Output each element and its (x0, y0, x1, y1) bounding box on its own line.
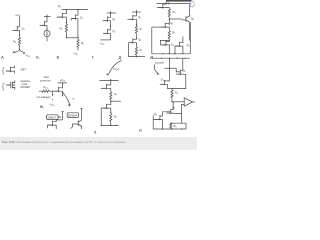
wire (127, 18, 132, 20)
transistor Q4 with gate loop (162, 41, 169, 46)
svg-text:RS: RS (13, 40, 17, 45)
wire (162, 112, 166, 129)
wire (135, 10, 137, 12)
arrowhead (46, 34, 48, 36)
wire (109, 81, 111, 92)
wire (160, 83, 165, 85)
svg-text:Q1: Q1 (58, 4, 61, 9)
svg-text:R2: R2 (81, 41, 84, 46)
svg-text:R2: R2 (172, 31, 175, 36)
box 2N3904 (67, 113, 78, 118)
transistor Q1 (159, 3, 166, 8)
wire (166, 111, 171, 113)
source loop rectangle (167, 74, 185, 89)
node (110, 25, 111, 26)
arrowhead (106, 73, 108, 76)
svg-text:Q2: Q2 (183, 69, 186, 74)
svg-text:Г.: Г. (92, 56, 94, 60)
opamp noninverting input wire (182, 104, 185, 113)
junction (52, 99, 53, 100)
bottom rail (100, 39, 110, 41)
svg-text:R: R (140, 27, 142, 31)
wire (77, 38, 79, 51)
top rail (157, 3, 191, 5)
wire (175, 46, 179, 54)
wire below (46, 37, 48, 42)
junction (162, 128, 163, 129)
wire (61, 83, 63, 96)
bottom rail (153, 128, 186, 130)
junction (62, 92, 63, 93)
wire (135, 38, 136, 47)
junction (190, 3, 191, 4)
junction (177, 58, 178, 59)
svg-text:Q5: Q5 (187, 43, 190, 48)
node (136, 24, 137, 25)
resistor R2 (168, 31, 170, 39)
node base (169, 18, 170, 19)
wire (168, 39, 170, 40)
wire (103, 32, 108, 34)
transistor Q1 (103, 16, 110, 21)
resistor R3 (171, 90, 173, 98)
wire (61, 111, 63, 113)
transistor Q2 (103, 29, 110, 34)
transistor Q1 (13, 26, 20, 31)
top rail (132, 11, 141, 13)
svg-text:JFET: JFET (20, 69, 26, 72)
wire (19, 35, 21, 48)
arrowhead (23, 53, 25, 55)
wire (109, 104, 111, 112)
wire (135, 55, 137, 57)
wire (182, 123, 186, 129)
top rail (107, 12, 116, 14)
svg-text:Б.: Б. (36, 56, 39, 60)
node to opamp (171, 101, 172, 102)
horizontal resistor (39, 90, 53, 92)
svg-text:R2: R2 (114, 114, 117, 119)
svg-text:2N3904: 2N3904 (68, 113, 78, 117)
svg-text:Q2: Q2 (112, 29, 115, 34)
wire (101, 108, 106, 125)
transistor (40, 21, 47, 26)
wire above bjt (81, 109, 83, 120)
gate tie wire (66, 37, 78, 39)
VGS annotation curve (108, 60, 121, 74)
transistor glyph (167, 109, 174, 114)
arrowhead (9, 84, 11, 85)
junction (169, 68, 170, 69)
junction (110, 125, 111, 126)
resistor RS (18, 37, 20, 45)
supply wire (58, 82, 67, 84)
svg-text:Q2: Q2 (80, 15, 83, 20)
resistor R2 (110, 114, 112, 122)
resistor R2 (77, 39, 79, 47)
transistor Q1 (58, 13, 65, 18)
junction (77, 9, 78, 10)
transistor lower w/ gate-source tie (110, 101, 112, 104)
junction (110, 112, 111, 113)
output branch (20, 49, 25, 53)
resistor R2 (135, 47, 137, 55)
wire (57, 16, 63, 18)
svg-text:−VSS: −VSS (73, 52, 78, 56)
wire (80, 108, 82, 110)
wire (53, 90, 59, 92)
bottom node / out (136, 56, 137, 57)
svg-text:−VSS: −VSS (49, 102, 54, 106)
wire (71, 119, 82, 129)
top wire (44, 16, 51, 18)
svg-text:А.: А. (1, 56, 4, 60)
svg-text:Q3: Q3 (170, 21, 173, 26)
wire (167, 68, 170, 88)
wire (151, 56, 153, 58)
svg-text:Q1: Q1 (22, 26, 25, 31)
wire (154, 64, 158, 74)
wire (65, 10, 67, 23)
svg-text:Q1: Q1 (161, 78, 164, 83)
svg-text:R3: R3 (175, 91, 178, 96)
Q2 drain wire (182, 58, 184, 70)
wire (135, 12, 136, 24)
junction (116, 125, 117, 126)
node below base junction (168, 19, 170, 24)
svg-text:−VSS: −VSS (99, 41, 104, 45)
wire (188, 4, 190, 41)
svg-text:w: w (73, 98, 75, 101)
svg-text:Q1: Q1 (138, 15, 141, 20)
wire (110, 11, 112, 13)
wire drain to VDD (19, 17, 21, 27)
wire (19, 27, 21, 35)
wire (110, 100, 112, 101)
svg-text:+VDD: +VDD (15, 13, 21, 18)
wire above jfet (62, 112, 64, 120)
arrowhead (157, 73, 160, 75)
wire (171, 89, 173, 102)
wire (182, 36, 183, 53)
wire (152, 26, 165, 28)
wire (182, 16, 190, 20)
svg-text:Q4: Q4 (171, 42, 174, 47)
wire (135, 24, 137, 38)
svg-text:Ж.: Ж. (40, 105, 44, 109)
op-amp U1 (184, 98, 192, 106)
wire (165, 2, 167, 4)
node wire Q1 drain to Q2 gate (165, 67, 177, 69)
arrowhead (68, 104, 71, 107)
wire (168, 40, 169, 54)
bottom rail (152, 22, 191, 54)
wire (71, 19, 75, 21)
wire (52, 91, 54, 94)
svg-text:З.: З. (94, 130, 97, 134)
wire (168, 24, 170, 31)
wire (77, 15, 79, 38)
junction (169, 53, 170, 54)
svg-text:+VDD: +VDD (59, 78, 65, 83)
transistor Q5 (BJT) (175, 42, 182, 47)
wire (46, 15, 48, 17)
wire (111, 100, 121, 102)
node (46, 29, 47, 30)
bottom rail (101, 122, 118, 126)
wire (172, 101, 184, 103)
output arrow curve (63, 92, 71, 105)
Q3 source loop (171, 113, 182, 123)
junction (66, 9, 67, 10)
wire gate input (12, 29, 17, 31)
junction (181, 128, 182, 129)
wire (193, 101, 195, 103)
bjt sample (74, 120, 82, 126)
wire (6, 65, 15, 73)
junction (62, 82, 63, 83)
svg-text:{: { (2, 81, 5, 91)
wire (168, 17, 170, 19)
wire (157, 7, 163, 9)
junction (136, 11, 137, 12)
junction (110, 80, 111, 81)
svg-text:{: { (2, 65, 5, 75)
transistor Q2 (129, 38, 136, 43)
junction (162, 7, 163, 8)
resistor R1 (65, 24, 67, 32)
wire (56, 119, 62, 121)
transistor glyph (160, 80, 167, 85)
svg-text:Q4: Q4 (154, 112, 157, 117)
svg-text:MOSFET: MOSFET (20, 86, 31, 89)
resistor R4 (170, 123, 172, 129)
transistor Q3 (161, 23, 168, 28)
wire (109, 26, 112, 40)
resistor R1 (168, 9, 170, 17)
svg-text:В.: В. (57, 56, 60, 60)
blue refresh icon (190, 1, 195, 7)
svg-text:−VSS: −VSS (25, 53, 30, 57)
node2 (136, 37, 137, 38)
wire (103, 20, 108, 22)
wire (46, 31, 48, 35)
wire (109, 13, 112, 26)
arrowhead (52, 94, 54, 96)
top rail (62, 9, 88, 11)
transistor Q2 (77, 10, 79, 16)
wire (46, 17, 48, 30)
svg-text:R1: R1 (173, 10, 176, 15)
node q4 gate tie (169, 40, 170, 41)
svg-text:Д.: Д. (119, 56, 122, 60)
svg-text:R1: R1 (60, 26, 63, 31)
junction (162, 53, 163, 54)
legend: depletion MOSFET symbol (6, 80, 15, 89)
junction (170, 123, 171, 124)
wire (172, 110, 174, 114)
transistor glyph (102, 104, 109, 109)
junction (77, 37, 78, 38)
wire (65, 22, 67, 38)
junction (169, 23, 170, 24)
junction (182, 53, 183, 54)
junction (169, 58, 170, 59)
transistor upper (102, 84, 109, 89)
wire (47, 120, 56, 129)
junction (66, 37, 67, 38)
input wire (99, 80, 118, 82)
svg-text:cascode: cascode (155, 62, 165, 65)
svg-text:(no leakage!): (no leakage!) (37, 96, 51, 99)
junction (46, 16, 47, 17)
transistor glyph (156, 115, 163, 120)
svg-text:R: R (140, 48, 142, 52)
wire (101, 87, 107, 89)
wire (58, 116, 61, 118)
wire (153, 115, 160, 129)
junction (171, 88, 172, 89)
wire (165, 4, 169, 9)
svg-text:R1: R1 (114, 92, 117, 97)
transistor (54, 87, 61, 92)
jfet sample (48, 121, 55, 126)
wire (172, 102, 174, 110)
base wire to Q2 (169, 18, 182, 20)
junction (110, 12, 111, 13)
wire (189, 4, 192, 6)
wire (136, 56, 145, 58)
wire (40, 24, 45, 26)
node s1 (66, 22, 67, 23)
junction (165, 3, 166, 4)
node (110, 101, 111, 102)
svg-text:2N4117: 2N4117 (47, 115, 56, 119)
transistor Q1 (129, 15, 136, 20)
down arrow to -Vss (62, 95, 64, 97)
svg-text:Rgen: Rgen (43, 86, 48, 89)
junction (101, 125, 102, 126)
junction (174, 53, 175, 54)
wire (160, 40, 169, 45)
svg-text:Q1: Q1 (112, 17, 115, 22)
transistor Q2 (BJT) (182, 16, 190, 22)
svg-text:Q2: Q2 (138, 38, 141, 43)
wire (193, 1, 196, 3)
svg-text:VGS(off): VGS(off) (113, 68, 120, 71)
node source (19, 35, 20, 36)
left rail down (151, 27, 153, 54)
arrowhead (60, 116, 62, 118)
svg-text:protection: protection (39, 79, 51, 82)
top-right dark toolbar fragment (166, 0, 192, 2)
wire (169, 58, 171, 68)
supply rail (152, 57, 190, 59)
transistor glyph (71, 14, 78, 19)
box 2N4117 (47, 115, 58, 120)
junction (170, 128, 171, 129)
wire (190, 1, 195, 7)
negative supply arrow (14, 49, 20, 53)
wire (176, 68, 186, 74)
current source I1 (44, 30, 50, 36)
svg-text:И.: И. (139, 129, 143, 133)
svg-text:R4: R4 (174, 124, 177, 129)
resistor R1 (135, 26, 137, 34)
arrowhead (12, 51, 15, 54)
gate loop wire (129, 43, 137, 57)
transistor Q2 (176, 70, 183, 75)
wire (110, 79, 112, 81)
svg-text:Q2: Q2 (191, 17, 194, 22)
caption bar (0, 137, 197, 151)
clamp node + arrow (52, 91, 53, 92)
junction (185, 58, 186, 59)
resistor R1 (110, 92, 112, 100)
junction (161, 58, 162, 59)
junction (14, 85, 15, 86)
